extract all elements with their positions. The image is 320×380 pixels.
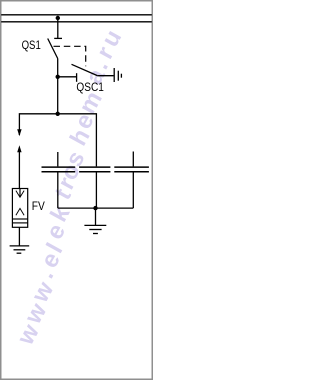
wire bus to QS1 fixed contact (57, 18, 59, 38)
watermark www.elektroshema.ru (12, 25, 128, 350)
capacitor C1 bottom lead (57, 173, 59, 209)
FV internal gap arrowhead down (open V) (16, 191, 24, 198)
capacitor C2 plates (79, 166, 110, 168)
capacitor C2 bottom lead (95, 173, 97, 209)
spark gap lower arrow (up) (17, 145, 21, 152)
ground below capacitors (84, 225, 106, 233)
capacitor C3 bottom lead (132, 173, 134, 209)
svg-text:QS1: QS1 (22, 39, 41, 52)
disconnector QS1 blade (open) (48, 39, 58, 59)
spark gap upper arrow (down) (17, 129, 21, 136)
svg-text:FV: FV (32, 200, 46, 213)
wire node A to node B (57, 77, 59, 114)
disconnector QS1 fixed contact bar (54, 37, 62, 39)
earthing switch QSC1 blade (open) (72, 64, 98, 75)
capacitor C1 top lead (floating) (57, 152, 59, 166)
bottom bus connecting capacitors (58, 207, 134, 209)
svg-text:QSC1: QSC1 (76, 81, 103, 94)
page border (1, 1, 153, 380)
FV internal top lead (19, 189, 21, 197)
wire QS1 to node A (57, 59, 59, 77)
wire FV to ground (18, 227, 20, 246)
wire node C to ground (95, 208, 97, 225)
wire QSC1 blade pivot to ground (97, 75, 113, 77)
node C junction dot (93, 206, 97, 210)
node A junction dot (56, 75, 60, 79)
ground below FV (10, 246, 30, 253)
busbar (two horizontal lines) (1, 15, 152, 22)
FV internal gap arrowhead up (open V) (16, 208, 24, 215)
dashed interlock linkage QS1-QSC1 (54, 46, 86, 66)
ground (right, rotated) at QSC1 (114, 68, 121, 82)
capacitor C3 top lead (floating) (132, 152, 134, 167)
wire spark gap to arrester FV (18, 152, 20, 189)
earthing switch QSC1 fixed contact bar (76, 73, 78, 82)
arrester FV body rectangle (12, 189, 27, 228)
wire node A to QSC1 fixed contact (58, 76, 77, 78)
capacitor C3 plates (114, 166, 149, 168)
FV internal bars (12, 218, 27, 220)
wire node B right to capacitor C2 (58, 114, 97, 167)
node: bus junction dot (56, 16, 60, 20)
node B junction dot (56, 112, 60, 116)
capacitor C1 plates (42, 166, 76, 168)
wire node B left to arrester branch (19, 114, 57, 135)
